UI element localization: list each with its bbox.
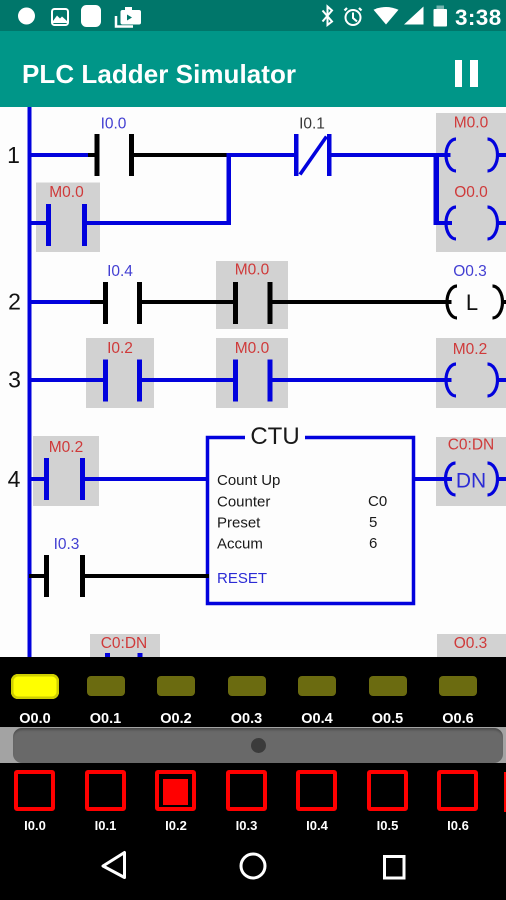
rung number 1	[7, 142, 20, 168]
label O0.0	[454, 184, 488, 201]
wire junction to I0.1 (energized)	[231, 153, 294, 157]
svg-text:RESET: RESET	[217, 570, 267, 587]
svg-text:Counter: Counter	[217, 494, 270, 511]
LED O0.1 off	[87, 676, 125, 696]
rung number 3	[8, 367, 21, 393]
scrollbar dot	[251, 738, 266, 753]
LED O0.6 off	[439, 676, 477, 696]
coil M0.2 (energized)	[446, 364, 498, 396]
button I0.6	[437, 770, 478, 811]
svg-text:M0.0: M0.0	[454, 115, 489, 132]
wire coil M0.2 to right edge	[497, 378, 506, 382]
label M0.0 coil rung1	[454, 115, 489, 132]
highlight box contact M0.2 rung4	[33, 436, 99, 506]
highlight box coil C0:DN rung4	[436, 437, 506, 506]
coil C0:DN (energized)	[446, 463, 498, 495]
rung number 4	[8, 466, 21, 492]
svg-text:O0.3: O0.3	[454, 635, 488, 652]
wire I0.4 to M0.0 rung2 (off)	[142, 300, 233, 304]
label I0.4	[107, 263, 133, 280]
LED O0.0 on	[11, 674, 59, 699]
svg-text:M0.0: M0.0	[49, 184, 84, 201]
svg-text:3: 3	[8, 367, 21, 393]
svg-text:3:38: 3:38	[455, 5, 502, 30]
svg-text:O0.0: O0.0	[454, 184, 488, 201]
wire rung1 I0.0 to junction (off)	[134, 153, 231, 157]
LED O0.3 off	[228, 676, 266, 696]
svg-text:I0.2: I0.2	[107, 340, 133, 357]
label M0.0 rung2	[235, 262, 270, 279]
wire coil O0.3 to right edge	[502, 300, 506, 304]
left power rail	[28, 107, 32, 657]
button I0.0	[14, 770, 55, 811]
notification square icon	[81, 5, 101, 27]
wire I0.2 to M0.0 rung3 (energized)	[142, 378, 233, 382]
contact M0.0 rung1 branch (NO, closed, energized)	[46, 204, 87, 246]
nav bar icons	[0, 840, 506, 888]
contact M0.2 rung4 (NO, closed, energized)	[44, 458, 85, 500]
button I0.3	[226, 770, 267, 811]
svg-text:C0:DN: C0:DN	[101, 635, 148, 652]
highlight box contact M0.0 rung1 branch	[36, 183, 100, 253]
svg-text:1: 1	[7, 142, 20, 168]
rung number 2	[8, 289, 21, 315]
wire M0.0 to coil M0.2 (energized)	[273, 378, 452, 382]
wire rung2 rail stub (energized)	[29, 300, 90, 304]
LED O0.5 off	[369, 676, 407, 696]
highlight box contact I0.2 rung3	[86, 338, 154, 408]
wire into coil O0.0	[434, 221, 452, 225]
coil M0.0 rung1 (energized)	[446, 139, 498, 171]
wire rung4 reset branch rail to I0.3 (off)	[29, 574, 44, 578]
contact I0.1 (NC, closed, energized)	[294, 134, 332, 176]
cellular icon	[404, 7, 424, 25]
label I0.2	[107, 340, 133, 357]
branch vertical coil O0.0	[434, 153, 440, 225]
coil O0.0 (energized)	[446, 207, 498, 239]
svg-text:6: 6	[369, 535, 377, 552]
contact I0.0 (NO, open)	[95, 134, 135, 176]
svg-text:Preset: Preset	[217, 515, 261, 532]
contact M0.0 rung3 (NO, closed, energized)	[233, 360, 273, 402]
svg-text:CTU: CTU	[250, 423, 299, 450]
LED O0.4 off	[298, 676, 336, 696]
highlight box coil O0.3 rung5	[437, 634, 506, 657]
wire M0.2 to CTU box (energized)	[85, 477, 209, 481]
contact I0.3 (NO, open)	[44, 555, 85, 597]
notification dot icon	[18, 8, 35, 25]
label M0.2 coil rung3	[453, 341, 487, 358]
label O0.3 coil rung5	[454, 635, 488, 652]
wire I0.3 to CTU RESET (off)	[85, 574, 209, 578]
button I0.1	[85, 770, 126, 811]
wire branch M0.0 to junction (energized)	[87, 221, 231, 225]
LED O0.2 off	[157, 676, 195, 696]
label M0.0 rung3	[235, 340, 270, 357]
label M0.2 rung4	[49, 439, 83, 456]
svg-text:M0.2: M0.2	[453, 341, 487, 358]
wire rung1 I0.0 stub left (off)	[88, 153, 95, 157]
counter block CTU C0	[208, 423, 414, 604]
svg-text:5: 5	[369, 514, 377, 531]
wire M0.0 to coil O0.3 (off)	[273, 300, 452, 304]
highlight box coil O0.0 rung1 branch	[436, 183, 506, 253]
wire rung3 rail to I0.2 (energized)	[29, 378, 103, 382]
svg-text:I0.0: I0.0	[101, 116, 127, 133]
contact I0.2 (NO, closed, energized)	[103, 360, 142, 402]
button I0.5	[367, 770, 408, 811]
svg-text:4: 4	[8, 466, 21, 492]
alarm icon	[345, 8, 362, 25]
button I0.4	[296, 770, 337, 811]
contact I0.4 (NO, open)	[103, 282, 142, 324]
highlight box contact M0.0 rung3	[216, 338, 288, 408]
highlight box coil M0.2 rung3	[436, 338, 506, 408]
contact M0.0 rung2 (NO, closed, no power)	[233, 282, 273, 324]
label I0.3	[54, 536, 80, 553]
label M0.0 branch	[49, 184, 84, 201]
svg-text:2: 2	[8, 289, 21, 315]
coil O0.3 latch (off)	[447, 286, 503, 318]
wire coil C0:DN to right edge	[497, 477, 506, 481]
svg-text:M0.0: M0.0	[235, 262, 270, 279]
svg-text:I0.1: I0.1	[299, 116, 325, 133]
label O0.3 rung2	[453, 263, 487, 280]
notification screenshot icon	[116, 7, 141, 27]
junction vertical rung1 to branch (energized)	[227, 153, 232, 225]
scrollbar thumb	[13, 728, 503, 763]
label I0.1	[299, 116, 325, 133]
svg-text:L: L	[466, 290, 478, 315]
label I0.0	[101, 116, 127, 133]
wire coil O0.0 to right edge	[497, 221, 506, 225]
svg-text:I0.4: I0.4	[107, 263, 133, 280]
highlight box contact C0:DN rung5	[90, 634, 160, 657]
notification image icon	[52, 9, 68, 25]
button I0.7 partial	[504, 772, 506, 812]
bluetooth icon	[323, 7, 333, 26]
wire rung1 rail to I0.0 (energized)	[29, 153, 88, 157]
wire rung4 rail to M0.2 (energized)	[29, 477, 44, 481]
svg-text:DN: DN	[456, 470, 486, 493]
svg-text:C0:DN: C0:DN	[448, 437, 495, 454]
button I0.2 pressed	[155, 770, 196, 811]
scrollbar track	[0, 727, 506, 763]
svg-text:O0.3: O0.3	[453, 263, 487, 280]
label C0:DN contact rung5	[101, 635, 148, 652]
battery icon	[434, 6, 448, 27]
highlight box contact M0.0 rung2	[216, 261, 288, 329]
svg-text:M0.0: M0.0	[235, 340, 270, 357]
highlight box coil M0.0 rung1	[436, 113, 506, 183]
svg-text:I0.3: I0.3	[54, 536, 80, 553]
contact C0:DN rung5 (partial, energized)	[105, 653, 143, 657]
wire branch rail to M0.0 contact (energized)	[29, 221, 46, 225]
wire coil M0.0 to right edge	[497, 153, 506, 157]
svg-text:C0: C0	[368, 493, 387, 510]
wifi icon	[374, 7, 399, 25]
wire rung2 to I0.4 (off)	[90, 300, 103, 304]
svg-text:Accum: Accum	[217, 536, 263, 553]
label C0:DN coil rung4	[448, 437, 495, 454]
wire CTU to coil C0:DN (energized)	[414, 477, 452, 481]
svg-text:M0.2: M0.2	[49, 439, 83, 456]
wire I0.1 to coil M0.0 (energized)	[332, 153, 451, 157]
svg-text:Count Up: Count Up	[217, 472, 280, 489]
